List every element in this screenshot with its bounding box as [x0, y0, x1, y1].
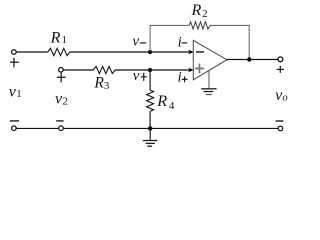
- svg-text:v: v: [133, 68, 140, 84]
- svg-text:R: R: [156, 93, 167, 110]
- wire v+ node to op-amp noninverting input with current arrow i+: [150, 69, 189, 71]
- ground under R4: [143, 141, 158, 147]
- svg-text:v: v: [132, 34, 139, 50]
- svg-text:R: R: [93, 75, 104, 92]
- node v+ junction dot: [148, 68, 152, 72]
- output node junction dot: [247, 57, 251, 61]
- minus mark at bottom-right terminal: [276, 120, 284, 122]
- svg-text:R: R: [191, 2, 202, 19]
- terminal vo+ (output open circle): [278, 57, 283, 62]
- terminal v2- (bottom second open circle): [59, 126, 64, 131]
- terminal v1+ (top-left open circle): [12, 50, 17, 55]
- svg-text:i: i: [178, 35, 182, 51]
- feedback wire up from v- node: [149, 25, 151, 52]
- plus mark at output terminal: [277, 66, 284, 73]
- svg-text:4: 4: [169, 100, 175, 112]
- bottom rail wire segment 2: [64, 127, 278, 129]
- wire R1 to v- node: [70, 51, 150, 53]
- svg-text:o: o: [282, 92, 287, 103]
- terminal v1- (bottom-left open circle): [12, 126, 17, 131]
- terminal v2+ (second row open circle): [59, 68, 64, 73]
- op-amp inverting input mark: [196, 51, 204, 53]
- wire R3 to v+ node: [115, 69, 150, 71]
- wire v1 terminal to R1: [17, 51, 48, 53]
- op-amp U1 triangle: [193, 40, 227, 79]
- resistor R4: [147, 90, 154, 111]
- svg-text:1: 1: [16, 88, 22, 100]
- resistor R1: [48, 48, 70, 55]
- minus mark at bottom second terminal: [56, 120, 63, 122]
- svg-text:1: 1: [62, 34, 68, 46]
- resistor R2: [189, 22, 210, 29]
- op-amp ground stem: [208, 70, 210, 88]
- svg-text:3: 3: [104, 80, 110, 92]
- feedback wire down to output node: [248, 25, 250, 60]
- minus mark at bottom-left terminal: [10, 120, 19, 122]
- node v- junction dot: [148, 50, 152, 54]
- plus mark at v1 top terminal: [10, 58, 19, 68]
- output wire from op-amp: [227, 59, 278, 61]
- wire v- node to op-amp inverting input with current arrow i-: [150, 51, 189, 53]
- plus mark at v2 terminal: [57, 73, 66, 83]
- wire R4 to bottom rail: [149, 111, 151, 128]
- wire v+ node down to R4: [149, 70, 151, 90]
- op-amp noninverting input mark (gray): [195, 64, 204, 74]
- feedback top wire right of R2: [210, 24, 249, 26]
- svg-text:2: 2: [202, 8, 208, 20]
- terminal vo- (bottom-right open circle): [278, 126, 283, 131]
- svg-text:2: 2: [62, 95, 68, 107]
- wire v2 terminal to R3: [64, 69, 94, 71]
- ground under op-amp: [201, 89, 216, 95]
- svg-text:i: i: [178, 69, 182, 85]
- resistor R3: [93, 66, 115, 73]
- bottom rail junction dot at R4: [148, 126, 152, 130]
- feedback top wire left of R2: [150, 24, 190, 26]
- svg-text:R: R: [50, 29, 61, 46]
- ground stem under R4 node: [149, 128, 151, 140]
- bottom rail wire segment 1: [17, 127, 59, 129]
